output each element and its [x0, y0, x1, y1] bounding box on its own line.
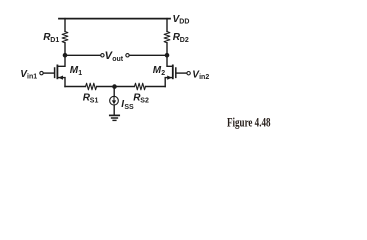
svg-text:out: out — [112, 56, 124, 63]
current source ISS arrow shaft — [113, 97, 115, 100]
resistor RD2 — [164, 32, 170, 43]
transistor M1 gate lead — [43, 72, 54, 74]
wire ISS bottom lead — [113, 105, 115, 115]
svg-text:DD: DD — [179, 19, 189, 26]
transistor M1 source wire — [57, 78, 65, 87]
svg-text:1: 1 — [78, 70, 82, 77]
wire Vout left segment — [65, 54, 101, 56]
wire RD2 to node B — [166, 43, 168, 55]
transistor M2 source arrow — [167, 76, 172, 80]
current source ISS arrowhead — [112, 100, 116, 104]
transistor M1 drain wire — [57, 55, 65, 66]
transistor M1 source arrow — [58, 76, 63, 80]
ground bar 1 — [110, 114, 119, 116]
terminal circle Vin1 — [40, 71, 43, 74]
terminal circle Vout right — [126, 54, 129, 57]
resistor RS2 — [134, 83, 145, 90]
wire RS1 to tail node — [97, 86, 115, 88]
resistor RD1 — [62, 32, 68, 43]
ground bar 2 — [112, 117, 118, 119]
tail node junction dot — [112, 84, 117, 89]
svg-text:D1: D1 — [50, 37, 59, 44]
transistor M2 drain wire — [167, 55, 173, 66]
svg-text:2: 2 — [161, 70, 165, 77]
node A junction dot — [63, 53, 68, 58]
transistor M2 channel bar — [172, 65, 174, 78]
wire ISS top lead — [113, 87, 115, 97]
wire left branch top — [64, 19, 66, 32]
svg-text:SS: SS — [124, 104, 134, 111]
wire RS2 to M2 source — [146, 86, 166, 88]
terminal circle Vin2 — [187, 72, 190, 75]
transistor M2 source wire — [165, 78, 173, 87]
svg-text:S1: S1 — [90, 97, 99, 104]
svg-text:in2: in2 — [199, 74, 209, 81]
wire right branch top — [166, 19, 168, 32]
wire RD1 to node A — [64, 43, 66, 55]
svg-text:in1: in1 — [27, 73, 37, 80]
transistor M1 gate bar — [54, 68, 56, 77]
ground bar 3 — [113, 119, 116, 121]
node B junction dot — [165, 53, 170, 58]
transistor M2 gate bar — [175, 68, 177, 77]
wire tail node to RS2 — [115, 86, 135, 88]
wire M1 source to RS1 — [65, 86, 86, 88]
wire Vout right segment — [129, 54, 167, 56]
svg-text:Figure 4.48: Figure 4.48 — [227, 115, 271, 129]
terminal circle Vout left — [101, 54, 104, 57]
current source ISS circle — [110, 96, 119, 105]
svg-text:D2: D2 — [180, 37, 189, 44]
transistor M1 channel bar — [56, 65, 58, 78]
svg-text:S2: S2 — [140, 97, 149, 104]
resistor RS1 — [86, 83, 97, 90]
transistor M2 gate lead — [177, 72, 187, 74]
wire top VDD rail — [59, 18, 170, 20]
